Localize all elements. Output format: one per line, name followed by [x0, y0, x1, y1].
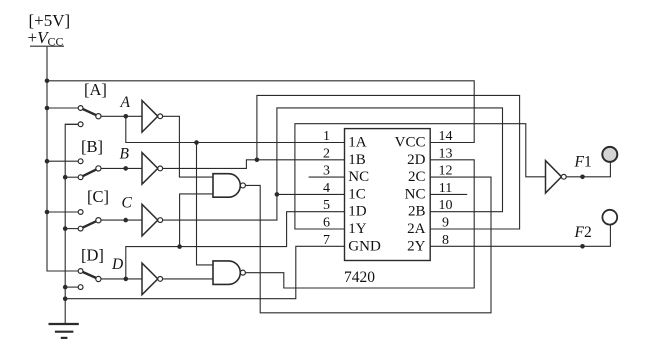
switch B pole contact	[96, 166, 101, 171]
svg-text:14: 14	[439, 129, 453, 144]
wire 1Y pin 6 to output inverter over top	[295, 124, 546, 229]
svg-text:10: 10	[439, 198, 453, 213]
svg-text:1C: 1C	[348, 186, 366, 202]
IC 7420 box	[345, 129, 431, 261]
svg-text:6: 6	[323, 216, 330, 231]
wire NAND2 output to IC pin 13 (2D) under box	[246, 160, 475, 288]
svg-text:9: 9	[442, 216, 449, 231]
svg-text:1B: 1B	[348, 152, 366, 168]
node B	[123, 166, 128, 171]
svg-text:1D: 1D	[348, 204, 367, 220]
wire switch D pole to node D and inverter input	[101, 278, 142, 280]
svg-text:11: 11	[439, 181, 452, 196]
svg-text:5: 5	[323, 198, 330, 213]
NAND gate U2A	[213, 174, 240, 198]
+5V supply rail vertical	[47, 47, 78, 271]
svg-text:[C]: [C]	[87, 187, 109, 206]
wire 2Y pin 8 to F2	[430, 225, 610, 247]
svg-text:12: 12	[439, 164, 453, 179]
switch D pole contact	[96, 276, 101, 281]
switch C lower contact	[78, 226, 83, 231]
switch A wire to lower contact	[65, 123, 80, 125]
switch A lever	[81, 108, 99, 116]
switch A pole contact	[96, 114, 101, 119]
svg-text:NC: NC	[405, 186, 426, 202]
node F2	[580, 244, 585, 249]
switch D upper contact	[78, 269, 83, 274]
svg-text:4: 4	[323, 181, 330, 196]
pin 11 NC stub	[430, 193, 467, 195]
junction +5V to switch C	[45, 210, 50, 215]
wire GND pin 7 to ground rail	[65, 246, 344, 298]
junction D net to NAND1 lower input	[177, 244, 182, 249]
underline of +Vcc	[30, 45, 64, 47]
switch B upper contact	[78, 159, 83, 164]
svg-text:B: B	[120, 146, 130, 163]
wire inverter B output to IC pin 2 (1B)	[163, 160, 345, 169]
IC pin numbers and labels	[323, 129, 453, 248]
pin 3 NC stub	[309, 176, 345, 178]
junction C' riser to pin 4 stub	[275, 192, 280, 197]
switch B wire to lower contact	[65, 176, 80, 178]
switch C wire to upper contact	[47, 211, 81, 213]
svg-text:2A: 2A	[407, 221, 426, 237]
wire B' riser to top crossover	[257, 95, 520, 229]
NAND gate U2B	[213, 261, 240, 285]
ground rail vertical	[65, 124, 78, 323]
inverter U1A (input A)	[142, 101, 158, 133]
wire switch B pole to node B and inverter input	[101, 167, 142, 169]
svg-text:[A]: [A]	[84, 80, 107, 99]
svg-text:GND: GND	[348, 238, 381, 254]
junction +5V to switch A	[45, 106, 50, 111]
junction gnd rail to switch C lower contact	[63, 226, 68, 231]
svg-text:8: 8	[442, 233, 449, 248]
indicator lamp F1 (lit, filled)	[602, 147, 617, 162]
svg-text:[B]: [B]	[81, 137, 103, 156]
svg-text:7420: 7420	[344, 269, 375, 286]
wire NAND1 output to IC pin 12 (2C) under box	[246, 177, 492, 313]
svg-text:1A: 1A	[348, 135, 367, 151]
svg-text:1Y: 1Y	[348, 221, 367, 237]
output inverter U1E	[546, 161, 562, 193]
inverter U1C (input C)	[142, 204, 158, 236]
switch C wire to lower contact	[65, 228, 80, 230]
svg-text:F2: F2	[574, 224, 592, 241]
switch A lower contact	[78, 122, 83, 127]
switch D wire to lower contact	[65, 286, 80, 288]
switch B lever	[81, 168, 99, 177]
svg-text:F1: F1	[574, 153, 592, 170]
switch B wire to upper contact	[47, 160, 81, 162]
svg-text:2: 2	[323, 146, 330, 161]
junction +5V to top wire	[45, 79, 50, 84]
switch C lever	[81, 220, 99, 228]
svg-text:1: 1	[323, 129, 330, 144]
svg-text:[D]: [D]	[81, 246, 104, 265]
svg-text:C: C	[122, 195, 133, 212]
node A junction	[124, 114, 129, 119]
indicator lamp F2 (open)	[602, 210, 617, 225]
svg-text:A: A	[120, 94, 131, 111]
wire +5V top to VCC pin 14	[47, 81, 474, 143]
junction node A branch to NAND2 input	[194, 140, 199, 145]
junction gnd rail to switch D lower contact	[63, 285, 68, 290]
node C	[123, 218, 128, 223]
junction gnd rail to GND pin wire	[63, 296, 68, 301]
svg-text:7: 7	[323, 233, 330, 248]
switch D lower contact	[78, 285, 83, 290]
switch D lever	[81, 271, 99, 279]
wire switch A pole to node A and inverter input	[101, 115, 142, 117]
switch A wire to upper contact	[47, 107, 81, 109]
svg-text:2B: 2B	[408, 204, 426, 220]
ground symbol	[49, 324, 79, 338]
node F1	[580, 175, 585, 180]
node D junction	[124, 277, 129, 282]
junction B' to 2A riser	[255, 158, 260, 163]
svg-text:2C: 2C	[408, 169, 426, 185]
inverter U1B (input B)	[142, 153, 158, 185]
wire D net branch to NAND1 lower input	[180, 194, 213, 247]
svg-text:VCC: VCC	[395, 135, 426, 151]
switch C pole contact	[96, 218, 101, 223]
svg-text:3: 3	[323, 164, 330, 179]
svg-text:NC: NC	[348, 169, 369, 185]
switch B lower contact	[78, 175, 83, 180]
junction +5V to switch B	[45, 159, 50, 164]
wire inverter output to F1	[566, 162, 610, 177]
svg-text:13: 13	[439, 146, 453, 161]
svg-text:D: D	[111, 256, 123, 273]
wire inverter C output to IC pin 4 (1C) riser	[163, 108, 503, 220]
wire pin 4 stub	[277, 193, 345, 195]
junction gnd rail to switch B lower contact	[63, 175, 68, 180]
wire switch C pole to node C and inverter input	[101, 219, 142, 221]
switch A upper contact	[78, 106, 83, 111]
wire node D riser to 1D net	[126, 212, 345, 279]
svg-text:2Y: 2Y	[407, 238, 426, 254]
wire inverter A output to NAND1 top input	[163, 116, 213, 177]
wire node A to IC pin 1 (1A)	[126, 116, 345, 142]
inverter U1D (input D)	[142, 263, 158, 295]
switch C upper contact	[78, 210, 83, 215]
svg-text:2D: 2D	[407, 152, 426, 168]
wire A branch down to NAND2 top input	[197, 143, 214, 265]
wire inverter D output to NAND2 lower input	[163, 278, 213, 280]
